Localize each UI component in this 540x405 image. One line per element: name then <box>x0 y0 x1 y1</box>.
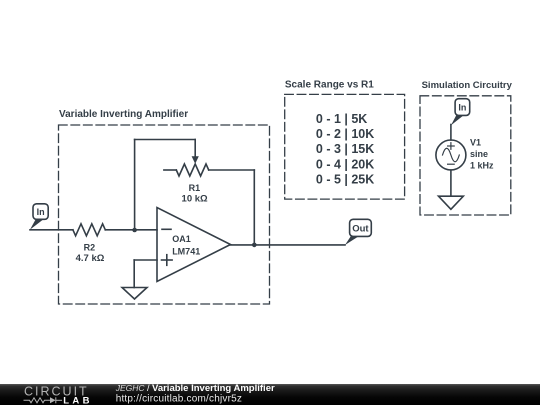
potentiometer R1 <box>164 156 254 176</box>
wire: down to ground <box>133 260 135 288</box>
svg-text:Scale Range vs R1: Scale Range vs R1 <box>285 80 374 91</box>
node B (output junction) <box>252 243 257 248</box>
svg-text:1 kHz: 1 kHz <box>470 160 494 170</box>
svg-text:In: In <box>37 207 45 217</box>
wire: In flag to R2 left lead <box>30 229 73 231</box>
enclosure box: Variable Inverting Amplifier <box>59 125 270 304</box>
svg-text:0 - 1 | 5K: 0 - 1 | 5K <box>316 112 367 126</box>
svg-text:In: In <box>458 102 466 112</box>
ground (op-amp) <box>122 288 147 300</box>
wire: feedback vertical from node A up <box>134 140 136 230</box>
voltage source V1 <box>436 140 466 170</box>
svg-text:LM741: LM741 <box>172 246 200 256</box>
logo resistor-diode glyph <box>24 397 63 403</box>
svg-text:JEGHC / Variable Inverting Amp: JEGHC / Variable Inverting Amplifier <box>115 383 275 394</box>
svg-text:0 - 5 | 25K: 0 - 5 | 25K <box>316 173 374 187</box>
footer bar <box>0 383 540 405</box>
flag Out <box>345 219 371 245</box>
wire: non-inverting input <box>134 259 157 261</box>
enclosure box: Simulation Circuitry <box>420 96 511 215</box>
svg-text:OA1: OA1 <box>172 234 191 244</box>
label: scale table <box>316 112 374 187</box>
svg-text:sine: sine <box>470 149 488 159</box>
svg-text:0 - 2 | 10K: 0 - 2 | 10K <box>316 127 374 141</box>
wire: R2 to op-amp inverting input <box>105 229 157 231</box>
wire: feedback top horizontal <box>135 139 196 141</box>
svg-text:0 - 3 | 15K: 0 - 3 | 15K <box>316 142 374 156</box>
svg-text:R2: R2 <box>84 242 96 252</box>
wire: R1 right lead down to output node <box>253 170 255 245</box>
op-amp minus symbol <box>162 228 171 230</box>
ground (simulation) <box>439 196 464 209</box>
svg-text:Variable Inverting Amplifier: Variable Inverting Amplifier <box>59 109 188 120</box>
svg-text:0 - 4 | 20K: 0 - 4 | 20K <box>316 157 374 171</box>
flag In (simulation) <box>451 99 470 126</box>
op-amp OA1 <box>157 208 231 282</box>
svg-text:Simulation Circuitry: Simulation Circuitry <box>422 80 513 91</box>
svg-text:R1: R1 <box>189 183 201 193</box>
wire: wiper stem down to R1 <box>194 140 196 157</box>
flag In (main input) <box>30 204 48 230</box>
svg-text:http://circuitlab.com/chjvr5z: http://circuitlab.com/chjvr5z <box>116 393 242 404</box>
resistor R2 <box>73 224 105 236</box>
svg-text:LAB: LAB <box>63 396 93 405</box>
node A (inverting input junction) <box>132 228 137 233</box>
svg-text:V1: V1 <box>470 138 481 148</box>
wire: V1 to ground <box>450 170 452 196</box>
op-amp plus symbol <box>162 255 173 266</box>
svg-text:4.7 kΩ: 4.7 kΩ <box>76 253 105 264</box>
svg-text:Out: Out <box>352 223 369 234</box>
wire: sim In flag to V1 <box>450 125 452 141</box>
enclosure box: Scale Range vs R1 <box>285 94 405 199</box>
wire: op-amp output to Out flag <box>231 244 346 246</box>
svg-text:10 kΩ: 10 kΩ <box>182 193 208 204</box>
